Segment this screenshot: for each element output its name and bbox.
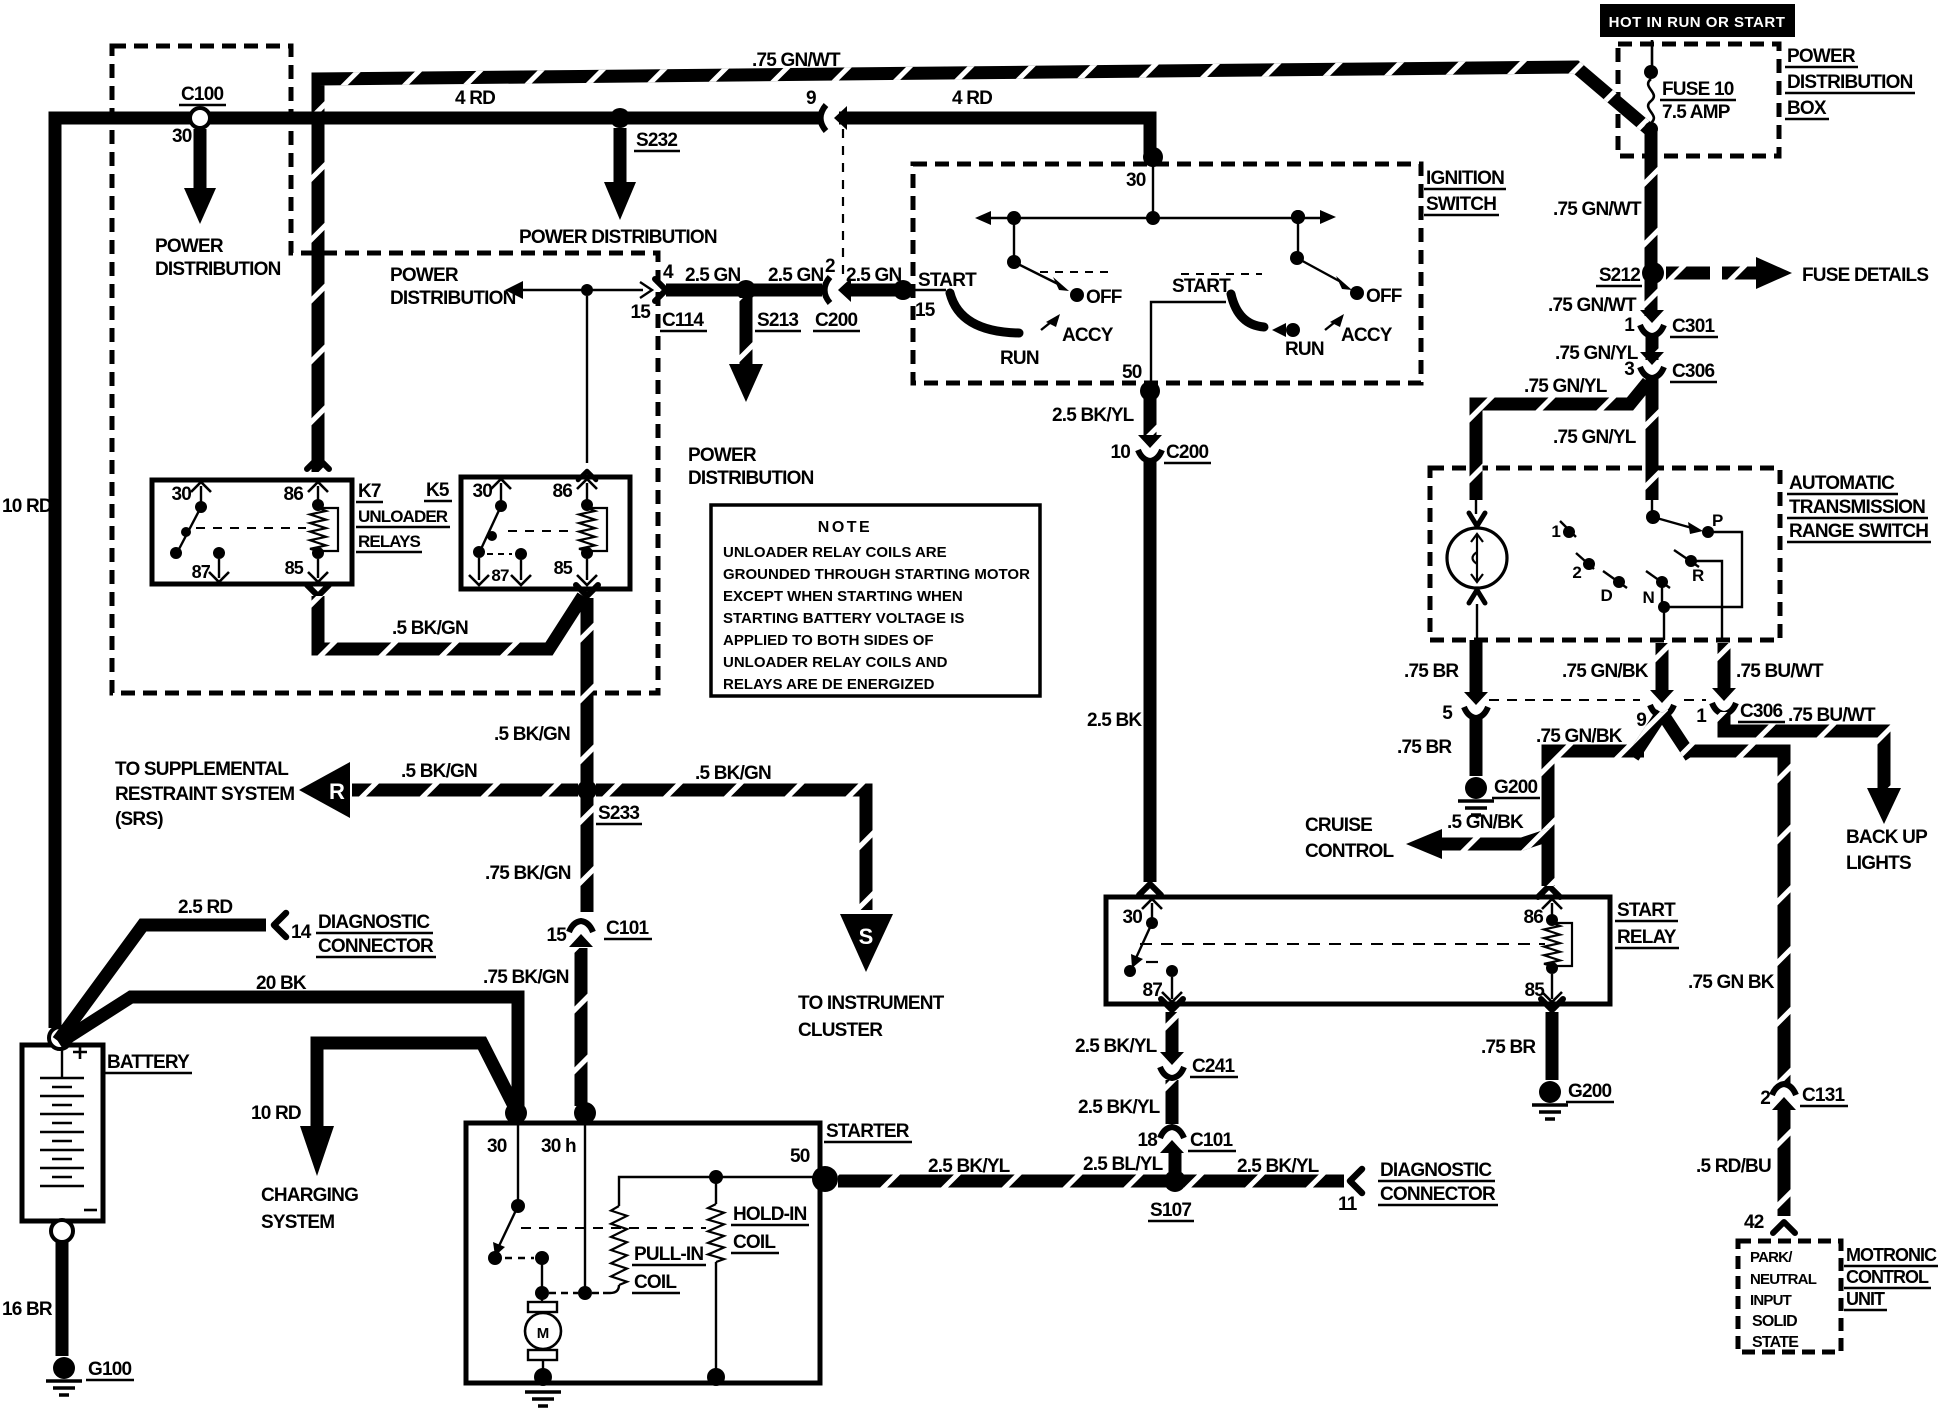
splice S212 [1642,262,1664,284]
svg-text:RELAYS: RELAYS [358,532,421,551]
wire .75 BR range switch 5 [1470,640,1483,698]
wire .75 GN BK connector 9 to C131 [1686,751,1784,1083]
wiper arc left (START) [950,293,1019,333]
range switch position solenoid (circle) [1447,528,1507,588]
svg-text:DISTRIBUTION: DISTRIBUTION [1787,72,1913,93]
svg-text:OFF: OFF [1366,286,1402,307]
wire .75 GN/YL C301 to C306 [1646,336,1659,360]
start relay box [1106,897,1610,1004]
svg-text:30: 30 [487,1136,507,1157]
wire .5 RD/BU C131 to motronic [1778,1108,1791,1216]
svg-text:NEUTRAL: NEUTRAL [1750,1271,1817,1288]
node ignition 15 feed [893,280,913,300]
K5 87 arrow A [469,575,489,585]
svg-text:30: 30 [472,481,492,502]
svg-text:DISTRIBUTION: DISTRIBUTION [390,288,516,309]
contact OFF right [1350,286,1364,300]
svg-text:87: 87 [1142,980,1162,1001]
note box [711,505,1040,696]
svg-text:.75 GN/WT: .75 GN/WT [752,50,841,71]
wire .5 BK/GN S233 to instrument cluster [596,790,866,910]
svg-text:DISTRIBUTION: DISTRIBUTION [688,468,814,489]
svg-text:87: 87 [192,562,211,582]
right pivot drop [1297,217,1299,256]
connector C114 fork (wire side) [655,279,666,301]
start relay switch arm [1136,923,1152,958]
wire 2.5 BL/YL S107 up [1169,1150,1182,1172]
arrow R to supplemental restraint system [299,762,350,818]
fuse 10 element [1648,79,1654,123]
node hold-in to case [707,1368,725,1386]
svg-text:30: 30 [1126,170,1146,191]
mech link dashes right [1181,273,1262,275]
svg-text:85: 85 [285,558,304,578]
svg-text:COIL: COIL [733,1232,776,1253]
K7 terminal 87 contact [213,547,225,559]
node motor to case [534,1368,552,1386]
dashed link connector 9 to connector 2 (C200) [842,129,844,280]
ignition terminal 50 [1140,381,1160,401]
svg-text:C200: C200 [815,310,857,331]
contact 2 [1583,558,1595,570]
ground G200 (start relay) [1539,1081,1561,1103]
bus arrow right [1320,210,1336,224]
svg-text:.75 BK/GN: .75 BK/GN [485,863,571,884]
svg-text:CRUISE: CRUISE [1305,815,1372,836]
svg-text:TO SUPPLEMENTAL: TO SUPPLEMENTAL [115,759,289,780]
starter case ground [525,1392,561,1406]
wire stub S212 to fuse details [1666,267,1710,280]
wire 10 RD branch to charging system [317,1043,514,1128]
fork connector 14 [274,913,286,937]
connector 2 C131 inline [1772,1097,1796,1110]
range switch wiper [1653,517,1692,528]
svg-text:UNLOADER RELAY COILS ARE: UNLOADER RELAY COILS ARE [723,544,947,561]
svg-text:POWER: POWER [390,265,459,286]
svg-text:15: 15 [915,300,936,321]
pull-in coil zigzag [611,1206,627,1285]
svg-text:.5 BK/GN: .5 BK/GN [401,761,477,782]
svg-text:2.5 BK/YL: 2.5 BK/YL [1052,405,1135,426]
connector C100 (white dot) [190,108,210,128]
node: junction to K5 86 [581,284,593,296]
N node to terminal 9 [1663,607,1665,640]
svg-text:1: 1 [1624,315,1635,336]
K5 terminal 30 [491,479,511,489]
hold-in coil [715,1177,717,1204]
svg-text:CONNECTOR: CONNECTOR [318,936,434,957]
arrowhead at RUN right [1272,323,1286,337]
wire 16 BR battery to G100 [56,1242,69,1356]
svg-text:.75 GN/YL: .75 GN/YL [1524,376,1608,397]
fork at start relay 30 [1139,884,1161,895]
svg-text:G200: G200 [1494,777,1538,798]
svg-text:ACCY: ACCY [1062,325,1114,346]
splice S213 [736,280,756,300]
node hold-in tap [709,1170,723,1184]
wire .75 GN/YL C306 detour to range switch left [1476,382,1648,500]
svg-text:30: 30 [171,484,191,505]
svg-text:C301: C301 [1672,316,1715,337]
banner HOT IN RUN OR START [1600,4,1795,37]
relay K7 box [152,480,352,584]
svg-text:POWER: POWER [155,236,224,257]
svg-text:7.5 AMP: 7.5 AMP [1662,102,1731,123]
start relay terminal 30 [1142,899,1162,909]
battery minus terminal [51,1220,73,1242]
wire 2.5 BK down to start relay 30 [1144,460,1157,882]
svg-text:15: 15 [630,302,651,323]
svg-text:RANGE SWITCH: RANGE SWITCH [1789,521,1928,542]
connector 18 C101 inline [1160,1140,1184,1153]
arrow S to instrument cluster [840,914,893,972]
K7 mech link dashed [196,527,306,529]
svg-text:30: 30 [1122,907,1142,928]
svg-text:2.5 BK/YL: 2.5 BK/YL [1075,1036,1158,1057]
svg-text:GROUNDED THROUGH STARTING MOTO: GROUNDED THROUGH STARTING MOTOR [723,566,1030,583]
svg-text:S233: S233 [598,803,639,824]
svg-text:PARK/: PARK/ [1750,1249,1793,1266]
svg-text:START: START [1172,276,1231,297]
wiper arc right (START) [1231,294,1264,327]
svg-text:86: 86 [1523,907,1543,928]
svg-text:S213: S213 [757,310,798,331]
fork above start relay 86 [1538,886,1560,897]
K5 terminal 86 [577,479,597,489]
wire .75 GN/WT from K7 86 up across top to fuse 10 [318,67,1651,472]
wire 30 to bus [1152,160,1154,218]
node starter 30h feed [574,1102,596,1124]
fork below start relay 85 [1541,999,1563,1010]
svg-text:STATE: STATE [1752,1334,1799,1351]
svg-text:CLUSTER: CLUSTER [798,1020,883,1041]
K7 terminal 30 [191,482,211,492]
svg-text:4: 4 [663,262,674,283]
svg-text:.75 GN/BK: .75 GN/BK [1536,726,1623,747]
svg-text:N: N [1643,588,1655,607]
mech link dashes left [1040,271,1108,273]
hold-in coil zigzag [708,1204,724,1262]
contact RUN right [1286,323,1300,337]
start relay mech link dashed [1140,943,1545,945]
svg-text:3: 3 [1624,359,1634,380]
svg-text:2: 2 [1572,563,1581,582]
wire 50 up to right wiper [1151,302,1226,388]
svg-text:CHARGING: CHARGING [261,1185,358,1206]
fork connector 11 [1350,1169,1362,1193]
svg-text:APPLIED TO BOTH SIDES OF: APPLIED TO BOTH SIDES OF [723,632,934,649]
K7 terminal 87 arrow [209,572,229,582]
wire .5 BK/GN S233 to SRS arrow [352,784,578,797]
arrow down charging system [300,1126,334,1176]
K5 mech link dashed [508,530,576,532]
arrow down from S213 [729,364,763,402]
svg-text:50: 50 [1122,362,1142,383]
splice S232 [610,108,630,128]
K5 87 arrow B [511,575,531,585]
arrow down from S232 [604,182,636,220]
svg-text:CONNECTOR: CONNECTOR [1380,1184,1496,1205]
right wiper arrowhead [1336,276,1352,290]
svg-text:1: 1 [1696,706,1707,727]
svg-text:30: 30 [172,126,192,147]
svg-text:2.5 BL/YL: 2.5 BL/YL [1083,1154,1164,1175]
svg-text:RELAYS ARE DE ENERGIZED: RELAYS ARE DE ENERGIZED [723,676,935,693]
svg-text:RELAY: RELAY [1617,927,1677,948]
svg-text:.75 BU/WT: .75 BU/WT [1736,661,1824,682]
svg-text:POWER: POWER [1787,46,1856,67]
battery internal stem [61,1049,63,1078]
wire 2.5 BK/YL start relay 87 down [1166,1012,1179,1055]
left wiper to OFF [1014,262,1058,284]
svg-text:D: D [1601,586,1613,605]
wire stub S213 down (striped) [740,298,753,366]
svg-text:.75 GN/BK: .75 GN/BK [1562,661,1649,682]
svg-text:85: 85 [554,558,573,578]
node bus 30 [1146,211,1160,225]
arrow cruise control [1406,829,1442,859]
start relay terminal 86 [1542,899,1562,909]
svg-text:INPUT: INPUT [1750,1292,1792,1309]
wire .75 BR to G200 [1470,715,1483,776]
svg-text:PULL-IN: PULL-IN [634,1244,703,1265]
left wiper arrowhead [1053,277,1069,291]
starter terminal 50 [812,1166,838,1192]
svg-text:.5 GN/BK: .5 GN/BK [1447,812,1524,833]
wire .5 BK/GN K7-85 to K5-85 [318,596,583,649]
wire .75 BU/WT connector 1 to back up lights [1724,712,1884,788]
pull-in coil bottom hook [603,1285,619,1293]
svg-text:POWER: POWER [688,445,757,466]
wire thin down to K5 86 [586,296,588,463]
svg-text:HOLD-IN: HOLD-IN [733,1204,807,1225]
arrow back up lights [1867,788,1901,824]
contact gap mark [1146,961,1158,963]
svg-text:UNLOADER RELAY COILS AND: UNLOADER RELAY COILS AND [723,654,948,671]
relay K5 box [461,477,630,589]
wire 4 RD right segment to ignition switch 30 [839,118,1150,157]
svg-text:14: 14 [291,922,312,943]
wire diagonals from connector 9 [1633,713,1691,757]
K7 switch arm [178,507,201,551]
motronic control unit box (dashed) [1738,1241,1841,1352]
contact R [1685,555,1697,567]
svg-text:SYSTEM: SYSTEM [261,1212,334,1233]
fork below K7 85 [307,585,329,596]
svg-text:HOT IN RUN OR START: HOT IN RUN OR START [1609,14,1786,31]
solenoid to terminal 5 [1476,604,1478,640]
svg-text:DISTRIBUTION: DISTRIBUTION [155,259,281,280]
start relay terminal 87 [1166,965,1178,977]
battery plates [40,1077,84,1080]
svg-text:2.5 BK/YL: 2.5 BK/YL [1237,1156,1320,1177]
connector 1 C301 inline [1640,310,1664,323]
svg-text:C306: C306 [1672,361,1714,382]
starter 50 internal line [619,1177,828,1206]
svg-text:CONTROL: CONTROL [1846,1267,1929,1287]
contact ACCY left [1041,318,1056,330]
battery plus terminal [49,1027,71,1049]
arrow down from C100 [184,188,216,224]
connector 5 C306 [1464,692,1488,705]
connector 2 C200 inline [825,277,831,303]
wire .75 BR start relay 85 to G200 [1546,1012,1559,1080]
svg-text:UNLOADER: UNLOADER [358,507,448,526]
svg-text:S: S [859,924,874,949]
svg-text:STARTING BATTERY VOLTAGE IS: STARTING BATTERY VOLTAGE IS [723,610,964,627]
svg-text:2.5 BK: 2.5 BK [1087,710,1142,731]
power distribution arrow inside box2 [505,281,523,299]
node motor feed [535,1286,549,1300]
svg-text:30 h: 30 h [541,1136,576,1157]
svg-text:9: 9 [806,88,816,109]
svg-text:86: 86 [552,481,572,502]
svg-text:2: 2 [1760,1088,1770,1109]
svg-text:2.5 RD: 2.5 RD [178,897,232,918]
wire P loop to N node [1668,532,1742,607]
solenoid curl [1473,552,1478,564]
starter switch arm [499,1206,518,1246]
svg-text:IGNITION: IGNITION [1426,168,1504,189]
connector 15 C101 inline [569,934,593,947]
svg-text:4 RD: 4 RD [455,88,495,109]
svg-text:15: 15 [546,925,567,946]
svg-text:M: M [537,1325,550,1342]
chevron at C114 box edge [640,282,652,298]
svg-text:.75 BR: .75 BR [1481,1037,1536,1058]
battery box [22,1045,103,1221]
solenoid arrows [1471,534,1483,582]
wire .5 BK/GN down to S233 and C101 [581,598,594,912]
svg-text:2.5 GN: 2.5 GN [685,265,740,286]
range switch pivot [1646,510,1660,524]
left pivot drop [1013,218,1015,260]
wire banner to fuse [1651,40,1654,66]
svg-text:RUN: RUN [1000,348,1039,369]
svg-text:10: 10 [1110,442,1130,463]
wire 2.5 BK/YL ignition 50 to C200 [1144,398,1157,441]
wire stub S232 down [614,128,627,184]
wire R to terminal 1 [1691,561,1722,640]
wire .75 BU/WT range switch 1 [1718,643,1731,694]
connector C241 inline [1160,1052,1184,1065]
power distribution box top-right (dashed, fuse box) [1618,44,1779,156]
svg-text:G100: G100 [88,1359,132,1380]
svg-text:EXCEPT WHEN STARTING WHEN: EXCEPT WHEN STARTING WHEN [723,588,963,605]
svg-text:.5 BK/GN: .5 BK/GN [392,618,468,639]
svg-text:OFF: OFF [1086,287,1122,308]
svg-text:CONTROL: CONTROL [1305,841,1395,862]
svg-text:10 RD: 10 RD [2,496,52,517]
svg-text:2.5 GN: 2.5 GN [768,265,823,286]
svg-text:G200: G200 [1568,1081,1612,1102]
svg-text:.75 GN BK: .75 GN BK [1688,972,1775,993]
svg-text:5: 5 [1442,703,1453,724]
wire 2.5 BK/YL between connectors [1166,1080,1179,1124]
svg-text:2.5 BK/YL: 2.5 BK/YL [1078,1097,1161,1118]
starter 30 internal [517,1123,519,1204]
svg-text:C101: C101 [1190,1130,1233,1151]
wire .75 GN/BK to start relay 86 [1548,751,1644,886]
wire .75 GN/BK range switch 9 [1656,643,1669,696]
wire 2.5 RD battery to diagnostic connector [58,925,266,1041]
contact OFF left [1070,288,1084,302]
svg-text:.75 GN/WT: .75 GN/WT [1553,199,1642,220]
svg-text:1: 1 [1551,522,1560,541]
svg-text:P: P [1712,511,1723,530]
svg-text:42: 42 [1744,1212,1764,1233]
svg-text:C114: C114 [662,310,704,331]
starter mech link dashed [521,1227,706,1229]
svg-text:10 RD: 10 RD [251,1103,301,1124]
svg-text:TRANSMISSION: TRANSMISSION [1789,497,1925,518]
splice S233 [577,780,597,800]
svg-text:DIAGNOSTIC: DIAGNOSTIC [1380,1160,1492,1181]
svg-text:MOTRONIC: MOTRONIC [1846,1245,1937,1265]
svg-text:BATTERY: BATTERY [107,1052,190,1073]
svg-text:.5 RD/BU: .5 RD/BU [1696,1156,1771,1177]
svg-text:START: START [1617,900,1676,921]
svg-text:11: 11 [1338,1194,1358,1215]
svg-text:20 BK: 20 BK [256,973,307,994]
plus sign [73,1045,87,1059]
dash-dot link [549,1292,603,1294]
fork below start relay 87 [1161,999,1183,1010]
svg-text:87: 87 [491,566,509,585]
svg-text:C241: C241 [1192,1056,1235,1077]
starter 30h internal [584,1123,586,1291]
svg-text:C100: C100 [181,84,223,105]
node bus left pivot [1007,211,1021,225]
svg-text:.75 BU/WT: .75 BU/WT [1788,705,1876,726]
svg-text:SOLID: SOLID [1752,1313,1797,1330]
connector 1 C306 [1712,688,1736,701]
svg-text:DIAGNOSTIC: DIAGNOSTIC [318,912,430,933]
svg-text:S107: S107 [1150,1200,1191,1221]
svg-text:FUSE DETAILS: FUSE DETAILS [1802,265,1928,286]
svg-text:.75 BR: .75 BR [1397,737,1452,758]
connector 10 C200 inline [1138,435,1162,448]
svg-text:S232: S232 [636,130,677,151]
svg-text:STARTER: STARTER [826,1121,910,1142]
svg-text:BOX: BOX [1787,98,1827,119]
svg-text:.5 BK/GN: .5 BK/GN [695,763,771,784]
svg-text:2.5 BK/YL: 2.5 BK/YL [928,1156,1011,1177]
svg-text:K7: K7 [358,481,381,502]
connector 9 C200 inline [821,105,827,131]
svg-text:SWITCH: SWITCH [1426,194,1496,215]
svg-text:2: 2 [825,256,835,277]
svg-text:TO INSTRUMENT: TO INSTRUMENT [798,993,945,1014]
wire 10 RD battery to C100/S232 (left vertical + top horizontal) [55,118,821,1028]
svg-text:.75 GN/YL: .75 GN/YL [1553,427,1637,448]
wire .75 GN/WT fuse to C301 [1645,127,1658,316]
svg-text:ACCY: ACCY [1341,325,1393,346]
range switch solenoid feed [1475,500,1477,514]
contact D [1613,576,1625,588]
svg-text:COIL: COIL [634,1272,677,1293]
svg-text:.75 BR: .75 BR [1404,661,1459,682]
connector 9 C306 [1650,690,1674,703]
ground G100 [53,1357,75,1379]
svg-text:R: R [329,779,345,804]
fork at motronic pin 42 [1773,1222,1795,1233]
start relay coil [1544,923,1560,966]
contact N [1656,576,1668,588]
bus arrow left [975,211,991,225]
svg-text:RESTRAINT SYSTEM: RESTRAINT SYSTEM [115,784,294,805]
fork below solenoid [1469,590,1485,603]
